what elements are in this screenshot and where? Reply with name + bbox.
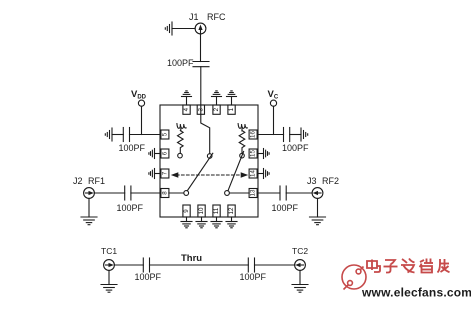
ground above pin 2 [212, 91, 222, 105]
svg-text:8: 8 [161, 191, 168, 195]
svg-text:11: 11 [213, 207, 220, 214]
pin 5 [161, 130, 169, 139]
ground at pin 15 [258, 149, 269, 159]
ground at pin 6 [149, 149, 160, 159]
svg-text:14: 14 [250, 170, 257, 177]
watermark logo (elecfans) [342, 265, 366, 290]
svg-text:15: 15 [250, 150, 257, 157]
linkage dashed line [177, 174, 243, 176]
pin 14 [249, 169, 257, 178]
wire cap to J3 [286, 192, 312, 194]
capacitor 100PF (J3) [279, 186, 281, 200]
wire J2 to ground [88, 198, 90, 217]
ground below pin 11 [211, 217, 222, 228]
wire VC down [273, 106, 275, 134]
pin 8 [161, 189, 169, 198]
wire C1 to pin 3 [200, 67, 202, 114]
ground (J2) [81, 217, 97, 225]
svg-text:100PF: 100PF [240, 272, 267, 282]
svg-text:J2: J2 [73, 176, 83, 186]
resistor R2 (internal right) [239, 131, 245, 154]
svg-text:100PF: 100PF [167, 58, 194, 68]
pin 7 [161, 169, 169, 178]
ground (TC1) [101, 285, 117, 293]
svg-text:TC1: TC1 [101, 246, 117, 256]
svg-text:5: 5 [161, 132, 168, 136]
capacitor 100PF (TC2) [247, 258, 249, 272]
capacitor 100PF (TC1) [142, 258, 144, 272]
svg-text:100PF: 100PF [135, 272, 162, 282]
IC body U1 [160, 105, 258, 217]
switch pole S1 [184, 191, 189, 196]
wire VDD node to pin 5 [130, 134, 161, 136]
capacitor 100PF (VDD) [122, 128, 124, 142]
svg-text:1: 1 [228, 107, 235, 111]
pin 3 [197, 105, 204, 114]
wire pin 16 to VC node [258, 134, 284, 136]
svg-text:RF2: RF2 [322, 176, 339, 186]
pin 12 [228, 205, 235, 217]
wire TC1 to ground [108, 270, 110, 284]
svg-text:RF1: RF1 [88, 176, 105, 186]
svg-text:12: 12 [228, 207, 235, 214]
wire thru line [150, 264, 249, 266]
svg-text:6: 6 [161, 151, 168, 155]
wire J3 to ground [317, 198, 319, 217]
svg-text:RFC: RFC [207, 12, 226, 22]
pin 13 [249, 189, 257, 198]
ground above pin 1 [227, 91, 237, 105]
ground at pin 7 [149, 169, 160, 179]
pin 2 [213, 105, 220, 114]
svg-text:4: 4 [183, 107, 190, 111]
wire pin 8 to pole S1 [169, 192, 184, 194]
capacitor C1 100PF (RFC) [193, 61, 209, 63]
pin 10 [198, 205, 205, 217]
svg-text:9: 9 [183, 209, 190, 213]
resistor R1 (internal left) [178, 131, 184, 154]
pin 4 [183, 105, 190, 114]
svg-text:100PF: 100PF [282, 143, 309, 153]
contact (right resistor) [240, 153, 245, 158]
ground at pin 14 [258, 169, 269, 179]
svg-text:100PF: 100PF [117, 203, 144, 213]
wire pin 3 internal [201, 114, 210, 153]
ground above pin 4 [182, 91, 192, 105]
svg-text:VC: VC [268, 89, 279, 101]
connector J2 [84, 188, 95, 199]
ground (TC2) [292, 285, 308, 293]
wire J2 to cap [94, 192, 124, 194]
terminal VC [270, 100, 276, 106]
arrowhead left [171, 172, 179, 178]
svg-text:10: 10 [198, 207, 205, 214]
wire J1 to C1 [200, 34, 202, 62]
pin 1 [228, 105, 235, 114]
svg-text:J3: J3 [307, 176, 317, 186]
capacitor 100PF (J2) [124, 186, 126, 200]
pin 6 [161, 149, 169, 158]
connector TC1 [104, 260, 115, 271]
arrowhead right [241, 172, 249, 178]
pin 15 [249, 149, 257, 158]
wire J1 ground to J1 [172, 28, 195, 30]
svg-text:TC2: TC2 [292, 246, 308, 256]
svg-text:2: 2 [213, 107, 220, 111]
switch pole S2 [225, 191, 230, 196]
internal squiggle (right resistor top) [238, 124, 247, 129]
ground (VDD cap) [105, 128, 112, 141]
ground below pin 10 [196, 217, 207, 228]
ground (J3) [310, 217, 326, 225]
pin 11 [213, 205, 220, 217]
svg-text:100PF: 100PF [119, 143, 146, 153]
internal squiggle (left resistor top) [177, 124, 186, 129]
switch arm S2 [228, 152, 244, 191]
svg-text:J1: J1 [189, 12, 199, 22]
switch arm S1 [187, 153, 212, 190]
ground below pin 12 [226, 217, 237, 228]
wire TC1 to cap [114, 264, 143, 266]
wire cap to ground (VDD) [112, 134, 123, 136]
wire TC2 to ground [299, 270, 301, 284]
wire pin 13 to cap [257, 192, 280, 194]
watermark text 电子发烧友 (drawn strokes) [367, 259, 450, 273]
svg-text:16: 16 [250, 131, 257, 138]
ground (VC cap) [301, 128, 308, 141]
svg-text:7: 7 [161, 171, 168, 175]
contact (left resistor) [178, 153, 183, 158]
svg-text:13: 13 [250, 189, 257, 196]
pin 16 [249, 130, 257, 139]
ground (left of J1) [171, 22, 173, 35]
wire cap to pin 8 [131, 192, 161, 194]
svg-text:www.elecfans.com: www.elecfans.com [361, 286, 471, 300]
svg-text:VDD: VDD [131, 89, 147, 101]
wire cap to ground (VC) [290, 134, 301, 136]
wire pole S2 to pin 13 [229, 192, 249, 194]
connector J3 [312, 188, 323, 199]
wire VDD down [141, 106, 143, 134]
ground below pin 9 [181, 217, 192, 228]
svg-text:100PF: 100PF [272, 203, 299, 213]
connector TC2 [295, 260, 306, 271]
wire cap to TC2 [255, 264, 295, 266]
connector J1 [195, 23, 206, 34]
capacitor 100PF (VC) [283, 128, 285, 142]
pin 9 [183, 205, 190, 217]
terminal VDD [138, 100, 144, 106]
contact (pin 3 throw) [207, 154, 212, 159]
svg-text:3: 3 [197, 107, 204, 111]
svg-text:Thru: Thru [181, 253, 202, 264]
